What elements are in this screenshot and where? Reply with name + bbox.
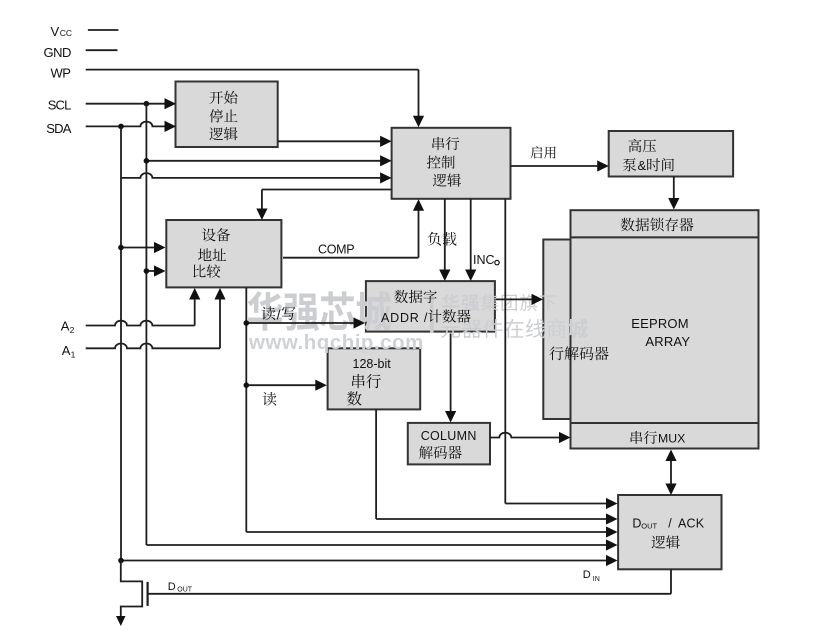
block U12 Dout/ACK logic <box>618 495 721 569</box>
node SCL branch junction <box>144 158 150 164</box>
svg-text:ARRAY: ARRAY <box>645 334 690 349</box>
node SDA junction <box>118 124 124 130</box>
pin WP <box>51 66 71 81</box>
svg-text:/: / <box>277 307 281 323</box>
svg-text:D: D <box>583 569 591 581</box>
label D OUT <box>168 581 193 594</box>
wire dataword to column decoder <box>445 334 456 423</box>
pin Vcc <box>51 24 119 39</box>
wire 128-bit register to Dout/ACK input2 <box>376 409 617 524</box>
svg-text:GND: GND <box>44 45 72 60</box>
label COMP <box>318 243 354 257</box>
label U6 128-bit shift register <box>347 357 391 406</box>
wire read to 128-bit shift register <box>246 380 326 391</box>
block U2 serial control logic <box>392 128 511 199</box>
label D IN <box>583 569 600 583</box>
wire read/write rail from device-address-compare down to Dout/ACK input3 <box>246 288 617 538</box>
svg-text:INC: INC <box>473 253 495 267</box>
wire A2 to device-address-compare (hops over SDA and SCL rails) <box>86 288 201 326</box>
wire dataword to row decoder <box>496 294 543 305</box>
wire Dout from Dout/ACK logic to output transistor gate <box>148 569 671 594</box>
pin GND <box>44 45 118 60</box>
wire SCL rail branch to device-address-compare <box>146 265 165 276</box>
svg-text:V: V <box>51 24 60 39</box>
svg-text:SDA: SDA <box>46 121 71 136</box>
label 读 (read) <box>263 392 277 406</box>
wire column decoder to serial mux (hop over rail) <box>490 432 571 443</box>
label row decoder 行解码器 <box>549 346 608 360</box>
svg-text:ACK: ACK <box>678 517 705 531</box>
block U4 device address compare <box>166 220 281 287</box>
node SCL to compare junction <box>144 268 150 274</box>
svg-text:1: 1 <box>71 349 76 359</box>
label 启用 (enable) <box>531 146 556 158</box>
svg-text:OUT: OUT <box>177 587 193 594</box>
wire SDA rail down <box>120 126 122 560</box>
wire SCL rail down and into Dout/ACK input4 <box>146 104 617 551</box>
wire SDA branch to serial-control (hop over SCL rail) <box>121 172 392 183</box>
label U8 data latch <box>621 218 694 232</box>
node SCL junction <box>144 101 150 107</box>
wire read/write to dataword-addr-counter <box>246 317 365 328</box>
label INC. <box>473 253 499 267</box>
svg-text:MUX: MUX <box>658 432 685 446</box>
svg-text:A: A <box>61 319 70 334</box>
label U7 column decoder <box>419 429 476 459</box>
svg-text:EEPROM: EEPROM <box>631 316 689 331</box>
transistor output MOSFET (open drain on SDA) <box>116 561 148 627</box>
svg-text:WP: WP <box>51 66 71 81</box>
wire SCL branch to serial-control <box>146 155 391 166</box>
watermark hqchip <box>248 291 588 354</box>
wire serial-control to device-address-compare <box>256 190 391 221</box>
svg-text:www.hqchip.com: www.hqchip.com <box>248 331 424 354</box>
node read junction <box>244 382 250 388</box>
label U11 serial MUX <box>631 431 686 446</box>
wire SDA rail branch to device-address-compare <box>121 242 166 253</box>
svg-text:/: / <box>668 517 672 531</box>
pin SDA <box>46 121 71 136</box>
wire WP to serial-control top <box>86 70 424 128</box>
label 负载 (load) <box>428 232 457 246</box>
label U4 device address compare <box>193 228 230 278</box>
wire serial-control rail to Dout/ACK input1 <box>505 199 617 509</box>
block U8 data latch <box>571 210 759 237</box>
svg-text:D: D <box>632 517 641 531</box>
wire load from serial-control to dataword-addr-counter <box>439 199 450 281</box>
svg-text:COMP: COMP <box>318 243 354 257</box>
node read/write junction <box>244 320 250 326</box>
svg-text:&: & <box>638 158 647 173</box>
block U6 128-bit shift register <box>328 348 421 409</box>
svg-text:ADDR /: ADDR / <box>381 311 428 325</box>
wire enable from serial-control to HV pump <box>511 160 609 171</box>
label U2 serial control logic <box>427 137 461 187</box>
svg-text:128-bit: 128-bit <box>353 357 392 371</box>
pin A1 <box>62 343 76 359</box>
pin SCL <box>48 98 71 113</box>
wire start-stop to serial-control <box>278 136 392 147</box>
block U1 start/stop logic <box>176 82 278 148</box>
wire Din from SDA rail to Dout/ACK input5 <box>121 555 618 566</box>
block U3 high voltage pump & timing <box>609 131 733 177</box>
svg-text:COLUMN: COLUMN <box>421 429 477 443</box>
svg-text:2: 2 <box>70 325 75 335</box>
label U5 data word ADDR/counter <box>381 290 471 325</box>
node SDA to compare junction <box>118 245 124 251</box>
block U5 data word ADDR/counter <box>366 281 495 332</box>
svg-text:SCL: SCL <box>48 98 71 113</box>
label U12 Dout/ACK logic <box>632 517 704 549</box>
wire SCL to start-stop logic <box>86 98 176 109</box>
svg-text:IN: IN <box>593 576 600 583</box>
label U3 high voltage pump & timing <box>623 139 674 173</box>
wire HV pump to data latch <box>668 177 679 210</box>
wire serial mux to Dout/ACK (bidirectional) <box>665 450 676 496</box>
wire A1 to device-address-compare (hops over SDA and SCL rails) <box>86 288 226 348</box>
label U1 start/stop logic <box>209 91 237 141</box>
wire COMP from device-address-compare to serial-control <box>283 199 424 257</box>
wire INC from serial-control to dataword-addr-counter <box>465 199 476 281</box>
svg-text:D: D <box>168 581 176 593</box>
block U7 column decoder <box>408 423 490 465</box>
pin A2 <box>61 319 75 335</box>
svg-text:OUT: OUT <box>641 522 657 531</box>
label U10 EEPROM array <box>631 316 690 349</box>
svg-text:A: A <box>62 343 71 358</box>
wire SDA to start-stop logic (hop over SCL rail) <box>86 121 176 132</box>
label 读/写 (read/write) <box>262 306 296 322</box>
block U10 EEPROM array <box>571 237 759 423</box>
svg-text:CC: CC <box>60 28 72 38</box>
block U11 serial MUX <box>571 423 759 449</box>
block U9 row decoder <box>543 240 572 420</box>
node Din junction on SDA rail <box>118 558 124 564</box>
